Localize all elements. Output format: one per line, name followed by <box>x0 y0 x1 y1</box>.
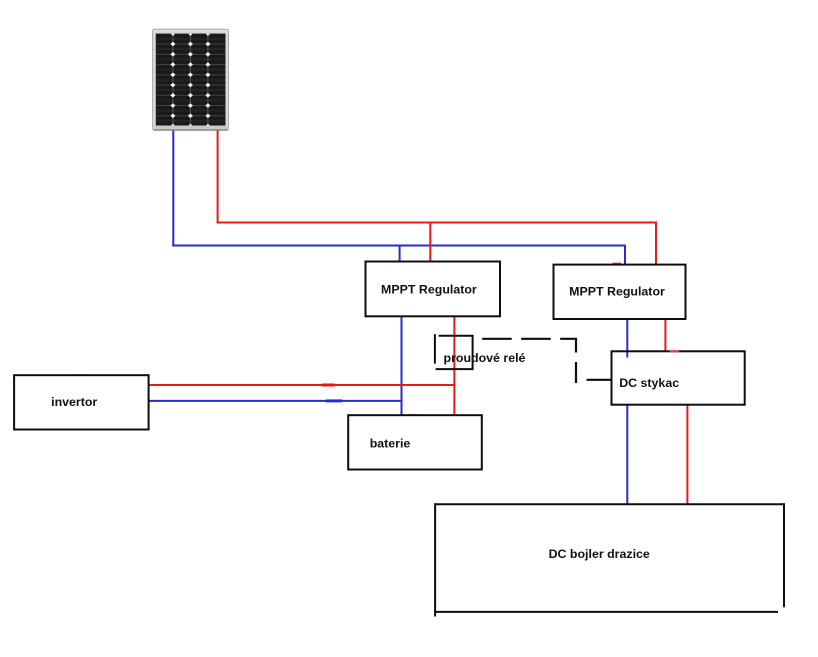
wire solid into DC stykac <box>587 379 613 381</box>
box MPPT Regulator 2 <box>554 265 686 319</box>
svg-text:DC bojler drazice: DC bojler drazice <box>549 547 650 561</box>
wire blue overlap thick segment <box>326 399 342 402</box>
wire red drop into MPPT regulator 2 <box>655 223 657 266</box>
wire red overlap thick segment <box>322 384 335 387</box>
svg-text:invertor: invertor <box>51 395 97 409</box>
wire blue MPPT2 to DC stykac <box>626 318 628 352</box>
wire blue horizontal bus to right <box>172 245 626 247</box>
red speck on baterie top border <box>408 414 418 416</box>
svg-text:DC stykac: DC stykac <box>619 376 679 390</box>
box MPPT Regulator 1 <box>366 262 501 317</box>
wire red horizontal bus to right <box>217 222 657 224</box>
box DC bojler drazice <box>434 503 784 616</box>
box baterie <box>348 415 482 469</box>
wire red invertor to red vertical <box>148 384 455 386</box>
red speck on DC stykac top border <box>670 350 680 352</box>
svg-text:baterie: baterie <box>370 436 411 450</box>
box DC stykac <box>612 351 745 404</box>
wire red drop into MPPT regulator 1 <box>429 223 431 263</box>
box proudove rele <box>435 334 526 369</box>
solar panel PV1 <box>153 29 229 130</box>
dashed wire relay to DC stykac corner <box>482 339 576 383</box>
svg-text:MPPT Regulator: MPPT Regulator <box>381 283 477 297</box>
red speck on MPPT2 top border <box>613 263 622 265</box>
wire red MPPT2 to DC stykac <box>664 318 666 352</box>
wire blue drop into MPPT regulator 2 <box>624 246 626 266</box>
wire blue invertor to blue vertical <box>148 400 403 402</box>
wire blue drop into MPPT regulator 1 <box>399 246 401 263</box>
wire blue DC stykac to bojler <box>626 404 628 504</box>
svg-text:proudové relé: proudové relé <box>444 351 526 365</box>
red speck on invertor top border <box>77 374 82 376</box>
box invertor <box>14 375 149 429</box>
wire blue panel negative down <box>172 131 174 247</box>
wire red DC stykac to bojler <box>686 404 688 504</box>
wire blue MPPT1 to baterie <box>401 316 403 416</box>
wire red MPPT1 through relay to baterie <box>453 316 455 416</box>
wire blue stub inside DC stykac <box>626 352 628 358</box>
wire red panel positive down <box>217 131 219 224</box>
svg-text:MPPT Regulator: MPPT Regulator <box>569 285 665 299</box>
